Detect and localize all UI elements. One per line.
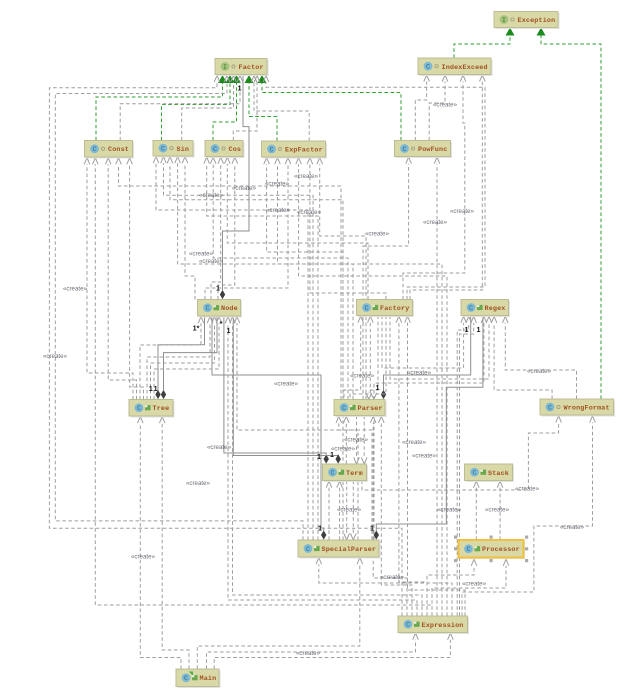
svg-text:«create»: «create»	[485, 507, 510, 514]
svg-text:C: C	[364, 305, 368, 313]
wire create Factory->Regex 1	[382, 316, 466, 369]
wire create Factory->Factor	[263, 76, 485, 300]
svg-text:«create»: «create»	[294, 173, 319, 180]
svg-text:Node: Node	[221, 305, 238, 313]
wire create Expression->Factor	[49, 76, 402, 617]
wire create Expression->Node 2	[230, 317, 422, 616]
svg-text:1: 1	[376, 383, 380, 392]
svg-text:«create»: «create»	[527, 368, 552, 375]
wire implements Cos->Factor	[213, 75, 241, 141]
wire create Term->Parser	[344, 416, 350, 464]
class Factor	[215, 59, 269, 77]
svg-text:«create»: «create»	[274, 381, 299, 388]
svg-text:1: 1	[227, 326, 231, 335]
svg-text:«create»: «create»	[380, 574, 405, 581]
wire create Processor->Stack 1	[474, 481, 480, 540]
svg-text:«create»: «create»	[297, 209, 322, 216]
wire create Expression->Sin	[175, 157, 442, 616]
wire extends IndexExceed->Exception	[454, 28, 515, 59]
wire create Term->WrongFormat	[362, 416, 561, 490]
class Expression	[398, 616, 469, 634]
class ExpFactor	[262, 141, 328, 159]
svg-text:«create»: «create»	[337, 507, 362, 514]
svg-text:Exception: Exception	[518, 17, 556, 25]
svg-text:«create»: «create»	[43, 353, 68, 360]
svg-text:«create»: «create»	[63, 286, 88, 293]
svg-text:C: C	[472, 470, 476, 478]
wire create Tree->Node 1	[140, 317, 204, 400]
svg-text:«create»: «create»	[423, 219, 448, 226]
wire create Expression->Const	[93, 158, 433, 616]
svg-text:C: C	[402, 146, 406, 154]
class Exception	[494, 12, 560, 30]
svg-text:C: C	[92, 146, 96, 154]
class Processor	[454, 536, 528, 563]
svg-text:Parser: Parser	[358, 405, 383, 413]
wire association Regex->SpecialParser diamond	[374, 316, 483, 540]
svg-text:1: 1	[216, 284, 220, 293]
wire create Parser->Term 1	[354, 416, 360, 464]
svg-text:WrongFormat: WrongFormat	[564, 405, 610, 413]
svg-text:C: C	[306, 546, 310, 554]
svg-text:«create»: «create»	[265, 181, 290, 188]
wire create SpecialParser->Sin 0	[153, 157, 308, 540]
wire create Tree->Const c	[127, 158, 144, 400]
svg-text:C: C	[184, 675, 188, 683]
wire create Parser->ExpFactor	[275, 158, 353, 400]
wire create Expression->SpecialParser	[316, 558, 452, 616]
svg-text:1: 1	[154, 384, 158, 393]
svg-text:Factory: Factory	[380, 305, 409, 313]
svg-text:«create»: «create»	[199, 192, 224, 199]
class Main	[176, 669, 221, 688]
svg-text:«create»: «create»	[433, 102, 458, 109]
wire create Expression->Regex 2	[460, 316, 477, 616]
class Factory	[357, 300, 415, 318]
svg-text:Cos: Cos	[229, 146, 242, 154]
wire association Node->SpecialParser diamond	[212, 316, 326, 540]
svg-text:«create»: «create»	[232, 185, 257, 192]
svg-text:«create»: «create»	[131, 554, 156, 561]
class Sin	[153, 141, 195, 158]
wire create Cos->Factor dep	[233, 76, 259, 141]
wire create Main->SpecialParser	[197, 558, 362, 669]
wire create SpecialParser->Sin	[161, 157, 313, 540]
wire implements Sin->Factor	[162, 75, 235, 141]
wire create Const->Factor dep	[120, 76, 243, 141]
svg-text:«create»: «create»	[186, 480, 211, 487]
wire create Term->SpecialParser 2	[351, 481, 357, 541]
svg-text:1: 1	[370, 524, 374, 533]
wire create Node->Cos 2	[218, 157, 238, 299]
svg-text:C: C	[469, 305, 473, 313]
svg-text:1: 1	[317, 452, 321, 461]
wire extends WrongFormat->Exception	[537, 28, 602, 400]
wire create Main->Tree 1	[138, 417, 182, 669]
wire create Factory->IndexExceed 2	[410, 75, 485, 300]
wire create Node->ExpFactor	[205, 158, 291, 300]
wire implements PowFunc->Factor	[258, 75, 402, 141]
wire implements ExpFactor->Factor	[245, 75, 278, 141]
wire create Parser->Factory 1	[344, 316, 364, 416]
wire association Node->Term diamond 1	[224, 316, 329, 464]
wire create Expression->WrongFormat	[462, 416, 595, 616]
wire association Node->Term diamond 2	[233, 316, 341, 464]
svg-text:Expression: Expression	[422, 622, 464, 630]
svg-text:«create»: «create»	[412, 453, 437, 460]
wire create Node->Cos	[211, 157, 224, 299]
wire create WrongFormat->Regex	[503, 316, 577, 399]
wire create Parser->Cos	[210, 157, 348, 399]
svg-text:«create»: «create»	[199, 258, 224, 265]
svg-text:«create»: «create»	[515, 486, 540, 493]
svg-text:«create»: «create»	[407, 370, 432, 377]
svg-text:*: *	[220, 319, 223, 328]
svg-text:C: C	[213, 146, 217, 154]
wire create Term->SpecialParser 1	[344, 481, 350, 541]
svg-text:«create»: «create»	[331, 446, 356, 453]
wire create ExpFactor->Factor dep	[251, 76, 309, 142]
svg-text:C: C	[330, 470, 334, 478]
svg-text:«create»: «create»	[266, 207, 291, 214]
svg-text:«create»: «create»	[207, 444, 232, 451]
svg-text:C: C	[548, 404, 552, 412]
svg-text:Main: Main	[200, 675, 217, 683]
svg-text:1: 1	[238, 84, 242, 93]
svg-text:C: C	[466, 546, 470, 554]
svg-text:1: 1	[318, 524, 322, 533]
wire create Parser->ExpFactor 2	[317, 158, 366, 400]
wire create Expression->PowFunc	[434, 157, 440, 616]
svg-text:1: 1	[330, 450, 334, 459]
wire create Expression->Parser 2	[379, 416, 413, 616]
svg-text:C: C	[342, 405, 346, 413]
wire create Factory->Cos	[225, 157, 369, 299]
wire create Parser->Const 2	[116, 158, 341, 400]
svg-text:Sin: Sin	[177, 146, 190, 154]
wire create Expression->ExpFactor	[296, 158, 447, 616]
wire create Tree->Node 4	[151, 317, 218, 400]
wire create Expression->Processor 2	[432, 559, 509, 616]
wire create PowFunc->IndexExceed 1	[415, 75, 429, 141]
class Cos	[205, 141, 245, 159]
svg-text:1: 1	[477, 325, 481, 334]
class IndexExceed	[418, 58, 493, 76]
svg-text:1: 1	[465, 325, 469, 334]
svg-text:C: C	[269, 146, 273, 154]
wire create Tree->Const b	[105, 158, 136, 400]
svg-text:IndexExceed: IndexExceed	[442, 64, 488, 72]
wire association Node->Tree diamond 2	[161, 316, 217, 399]
svg-text:C: C	[205, 305, 209, 313]
class SpecialParser	[298, 540, 381, 559]
svg-text:Factor: Factor	[239, 64, 264, 72]
wire create SpecialParser->ExpFactor	[264, 158, 343, 540]
svg-text:ExpFactor: ExpFactor	[285, 147, 323, 155]
svg-text:«create»: «create»	[437, 507, 462, 514]
wire create Expression->Factory 1	[396, 316, 427, 616]
wire create Parser->PowFunc	[363, 157, 411, 399]
wire create WrongFormat->Regex 2	[491, 316, 552, 399]
svg-text:C: C	[137, 405, 141, 413]
wire create Parser->Factory 2	[350, 316, 373, 416]
wire create Tree->Node 5	[154, 317, 222, 400]
wire implements Const->Factor	[96, 75, 227, 141]
svg-text:Tree: Tree	[153, 405, 170, 413]
svg-text:Processor: Processor	[482, 546, 520, 554]
wire create Expression->Parser 1	[370, 416, 407, 616]
class Term	[323, 464, 369, 482]
wire create Processor->Stack 2	[497, 481, 503, 540]
wire create Main->Expression 1	[207, 633, 419, 669]
wire create Sin->Factor dep	[182, 76, 237, 141]
class PowFunc	[395, 141, 453, 159]
svg-text:«create»: «create»	[189, 251, 214, 258]
wire create Parser->Term 2	[361, 416, 367, 464]
svg-text:1: 1	[149, 384, 153, 393]
svg-text:«create»: «create»	[365, 231, 390, 238]
class WrongFormat	[540, 399, 615, 417]
svg-text:C: C	[161, 146, 165, 154]
wire create SpecialParser->Parser	[336, 416, 372, 540]
class Tree	[129, 400, 175, 418]
wire create Parser->Sin	[167, 157, 343, 400]
svg-text:«create»: «create»	[344, 437, 369, 444]
class Stack	[465, 464, 515, 482]
wire create Factory->Parser 1	[366, 316, 378, 400]
class Const	[85, 141, 135, 159]
svg-text:PowFunc: PowFunc	[418, 146, 447, 154]
svg-text:Term: Term	[346, 470, 363, 478]
wire create Factory->Parser 2	[371, 316, 386, 400]
svg-text:«create»: «create»	[560, 524, 585, 531]
svg-text:«create»: «create»	[462, 581, 487, 588]
svg-text:«create»: «create»	[296, 650, 321, 657]
svg-text:«create»: «create»	[450, 208, 475, 215]
wire create SpecialParser->Node	[234, 317, 358, 540]
svg-text:Const: Const	[108, 146, 129, 154]
wire create Expression->Factory 2	[405, 316, 465, 616]
wire create Factory->IndexExceed 1	[403, 75, 466, 300]
wire create SpecialParser->Factor	[55, 76, 303, 541]
svg-text:«create»: «create»	[402, 439, 427, 446]
wire create Tree->Const a	[84, 158, 133, 400]
wire create Main->Tree 2	[159, 417, 189, 669]
wire create SpecialParser->Cos	[204, 157, 318, 540]
wire create Expression->Node 1	[225, 317, 417, 616]
wire create Tree->Node 3	[147, 317, 213, 400]
wire association Node->Tree diamond 1	[155, 316, 204, 399]
wire association Regex->Parser diamond	[381, 316, 471, 399]
svg-text:1*: 1*	[193, 324, 200, 333]
class Node	[198, 300, 243, 318]
wire create SpecialParser->Term 1	[326, 481, 332, 540]
svg-text:C: C	[406, 622, 410, 630]
wire create SpecialParser->Term 2	[337, 481, 343, 540]
svg-text:SpecialParser: SpecialParser	[322, 546, 377, 554]
wire create SpecialParser->Regex	[374, 316, 487, 540]
svg-text:I: I	[223, 64, 227, 71]
svg-text:I: I	[502, 17, 506, 24]
wire association Node->Factor composition	[220, 75, 249, 299]
svg-text:«create»: «create»	[350, 373, 375, 380]
wire create Expression->Processor 1	[427, 559, 477, 616]
svg-text:C: C	[426, 64, 430, 72]
wire create Main->Expression 2	[214, 633, 453, 669]
wire create Factory->ExpFactor 2	[307, 158, 386, 300]
wire create Node->Sin	[182, 157, 195, 300]
class Parser	[334, 400, 387, 418]
class Regex	[461, 300, 510, 318]
wire create PowFunc->IndexExceed 2	[429, 75, 448, 141]
wire create Expression->Regex	[457, 316, 471, 616]
svg-text:Stack: Stack	[488, 470, 509, 478]
wire create Factory->Regex 2	[390, 316, 492, 380]
svg-text:Regex: Regex	[485, 305, 506, 313]
